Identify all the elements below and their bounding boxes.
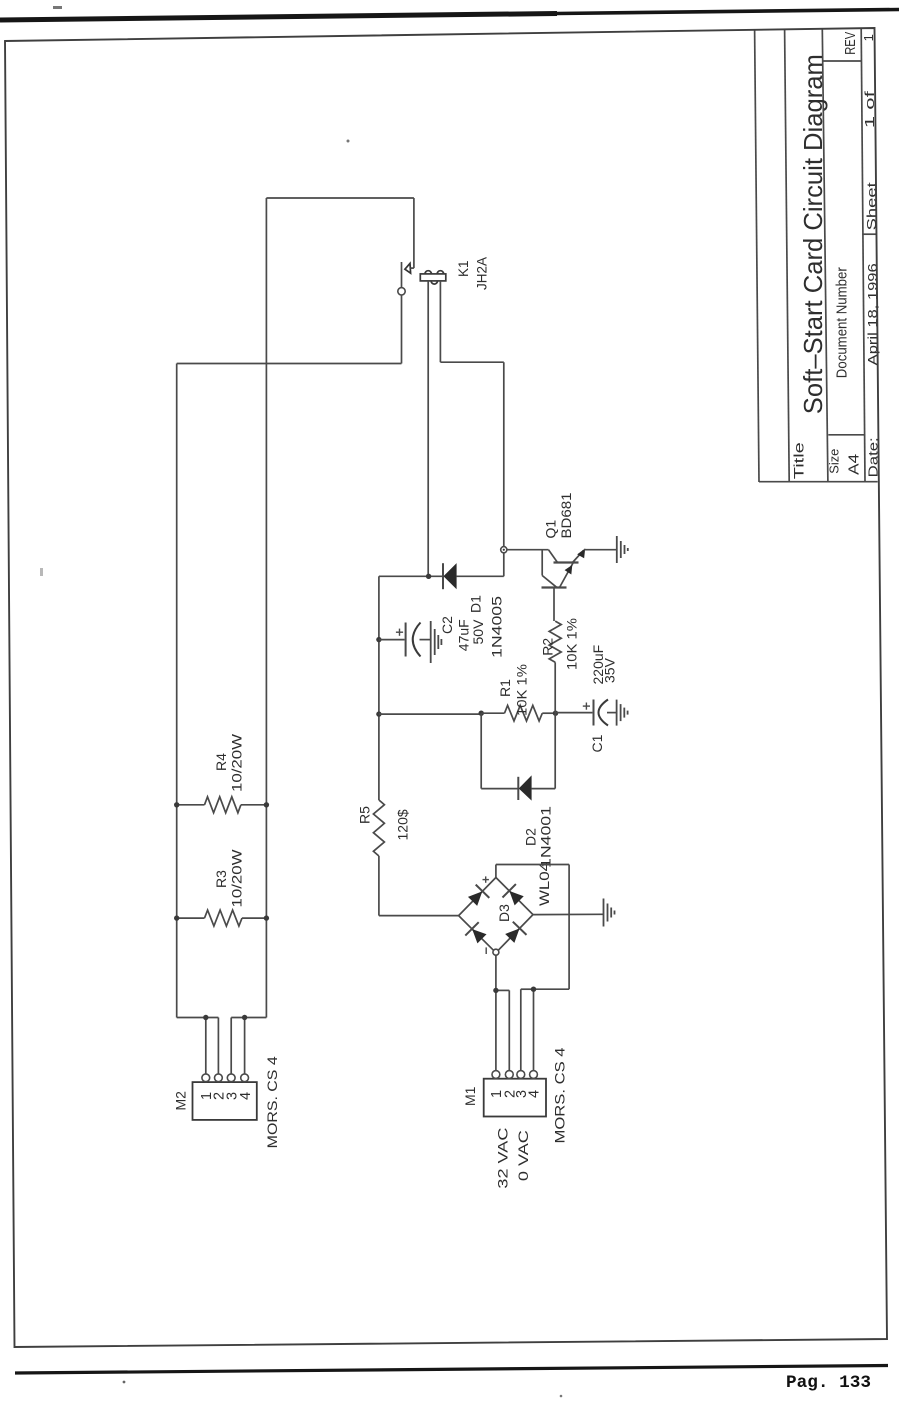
svg-text:M1: M1 (462, 1086, 478, 1106)
svg-text:D3: D3 (496, 904, 512, 922)
svg-text:Document Number: Document Number (834, 267, 851, 378)
svg-text:R4: R4 (213, 753, 229, 771)
svg-text:REV: REV (842, 32, 859, 55)
svg-text:10K 1%: 10K 1% (514, 664, 530, 716)
svg-text:32 VAC: 32 VAC (495, 1128, 511, 1189)
svg-text:R1: R1 (497, 679, 513, 697)
svg-text:0 VAC: 0 VAC (515, 1130, 531, 1181)
svg-text:D2: D2 (523, 828, 539, 846)
svg-text:C1: C1 (589, 734, 605, 752)
svg-text:M2: M2 (173, 1091, 189, 1111)
svg-text:1N4001: 1N4001 (538, 806, 554, 868)
svg-text:Size: Size (827, 449, 842, 474)
svg-text:35V: 35V (602, 657, 618, 683)
svg-text:Title: Title (792, 442, 807, 479)
svg-text:MORS. CS 4: MORS. CS 4 (264, 1056, 280, 1148)
svg-text:Pag. 133: Pag. 133 (786, 1373, 871, 1393)
svg-text:50V: 50V (470, 619, 486, 645)
svg-text:Soft–Start Card Circuit Diagra: Soft–Start Card Circuit Diagram (798, 54, 828, 414)
svg-text:K1: K1 (456, 260, 471, 277)
svg-text:Q1: Q1 (543, 520, 559, 539)
svg-text:10K 1%: 10K 1% (564, 618, 580, 670)
svg-text:1N4005: 1N4005 (489, 596, 505, 658)
svg-text:MORS. CS 4: MORS. CS 4 (552, 1047, 568, 1143)
svg-text:120$: 120$ (395, 809, 411, 840)
svg-text:BD681: BD681 (558, 492, 574, 538)
svg-text:4: 4 (527, 1090, 543, 1098)
svg-text:A4: A4 (847, 454, 863, 475)
svg-text:D1: D1 (468, 595, 484, 613)
svg-text:10/20W: 10/20W (229, 849, 245, 908)
svg-text:R2: R2 (540, 638, 556, 656)
svg-text:R3: R3 (213, 870, 229, 888)
svg-text:JH2A: JH2A (475, 257, 490, 290)
svg-text:10/20W: 10/20W (229, 733, 245, 792)
svg-text:R5: R5 (357, 806, 373, 824)
svg-text:4: 4 (238, 1092, 254, 1100)
svg-text:C2: C2 (439, 616, 455, 634)
svg-text:WL04: WL04 (536, 862, 552, 906)
